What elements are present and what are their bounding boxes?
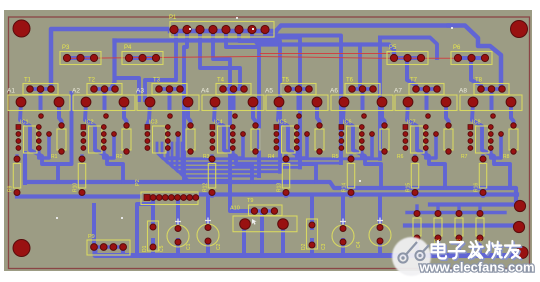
svg-text:P2: P2 bbox=[135, 179, 141, 186]
svg-text:IC5: IC5 bbox=[278, 120, 287, 126]
svg-text:IC6: IC6 bbox=[343, 120, 352, 126]
svg-text:R4: R4 bbox=[268, 154, 275, 160]
svg-text:C4: C4 bbox=[356, 241, 362, 248]
svg-text:R10: R10 bbox=[73, 183, 79, 192]
svg-text:R7: R7 bbox=[461, 154, 468, 160]
svg-text:IC3: IC3 bbox=[149, 120, 158, 126]
svg-text:R5: R5 bbox=[332, 154, 339, 160]
svg-text:T2: T2 bbox=[88, 78, 96, 84]
svg-text:A2: A2 bbox=[72, 88, 80, 95]
svg-text:T4: T4 bbox=[217, 78, 225, 84]
svg-text:A1: A1 bbox=[7, 88, 15, 95]
svg-text:P6: P6 bbox=[453, 45, 461, 51]
svg-text:IC1: IC1 bbox=[20, 120, 29, 126]
svg-text:R6: R6 bbox=[397, 154, 404, 160]
svg-text:C3: C3 bbox=[321, 243, 327, 250]
svg-text:A7: A7 bbox=[394, 88, 402, 95]
svg-text:www.elecfans.com: www.elecfans.com bbox=[419, 260, 535, 275]
svg-text:IC4: IC4 bbox=[214, 120, 223, 126]
svg-text:P1: P1 bbox=[169, 15, 177, 21]
svg-text:C5: C5 bbox=[159, 245, 165, 252]
svg-text:T5: T5 bbox=[282, 78, 290, 84]
svg-text:R1: R1 bbox=[51, 154, 58, 160]
svg-text:R13: R13 bbox=[277, 183, 283, 192]
svg-text:IC7: IC7 bbox=[407, 120, 416, 126]
svg-text:A6: A6 bbox=[330, 88, 338, 95]
svg-text:A4: A4 bbox=[201, 88, 209, 95]
svg-text:T3: T3 bbox=[153, 78, 161, 84]
svg-text:IC2: IC2 bbox=[85, 120, 94, 126]
svg-text:A3: A3 bbox=[136, 88, 144, 95]
svg-text:P5: P5 bbox=[389, 45, 397, 51]
svg-text:D2: D2 bbox=[301, 243, 307, 250]
svg-text:D1: D1 bbox=[142, 245, 148, 252]
svg-text:R16: R16 bbox=[474, 183, 480, 192]
svg-text:T9: T9 bbox=[247, 198, 253, 204]
svg-text:T8: T8 bbox=[475, 78, 483, 84]
svg-text:R2: R2 bbox=[116, 154, 123, 160]
svg-text:P9: P9 bbox=[88, 234, 95, 240]
svg-text:P4: P4 bbox=[124, 45, 132, 51]
svg-text:C1: C1 bbox=[186, 243, 192, 250]
svg-text:P3: P3 bbox=[62, 45, 70, 51]
svg-text:R15: R15 bbox=[406, 183, 412, 192]
svg-text:R14: R14 bbox=[342, 183, 348, 192]
svg-text:IC8: IC8 bbox=[472, 120, 481, 126]
svg-text:T6: T6 bbox=[346, 78, 354, 84]
svg-text:C2: C2 bbox=[216, 243, 222, 250]
svg-text:A8: A8 bbox=[459, 88, 467, 95]
svg-text:T7: T7 bbox=[410, 78, 418, 84]
svg-text:A5: A5 bbox=[265, 88, 273, 95]
svg-text:R8: R8 bbox=[503, 154, 510, 160]
svg-text:A10: A10 bbox=[230, 206, 240, 212]
svg-text:R12: R12 bbox=[203, 183, 209, 192]
svg-text:R9: R9 bbox=[8, 185, 14, 192]
svg-text:T1: T1 bbox=[24, 78, 32, 84]
